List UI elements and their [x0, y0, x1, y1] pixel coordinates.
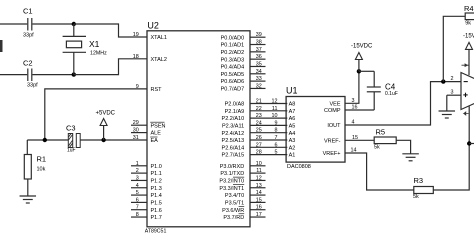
svg-text:1: 1 — [136, 161, 139, 167]
svg-text:P2.0/A8: P2.0/A8 — [225, 102, 245, 108]
svg-text:AT89C51: AT89C51 — [145, 229, 167, 235]
svg-text:R4: R4 — [464, 4, 474, 13]
svg-text:C2: C2 — [23, 59, 33, 68]
svg-text:35: 35 — [256, 61, 262, 67]
svg-text:P2.3/A11: P2.3/A11 — [222, 124, 244, 130]
svg-text:P3.6/WR: P3.6/WR — [222, 208, 244, 214]
svg-text:5k: 5k — [413, 194, 419, 200]
svg-text:R3: R3 — [414, 176, 424, 185]
svg-text:P3.7/RD: P3.7/RD — [223, 215, 244, 221]
svg-text:38: 38 — [256, 40, 262, 46]
svg-text:37: 37 — [256, 47, 262, 53]
svg-text:P0.0/AD0: P0.0/AD0 — [221, 35, 245, 41]
svg-text:RST: RST — [151, 87, 163, 93]
svg-text:21: 21 — [256, 99, 262, 105]
svg-text:7: 7 — [136, 205, 139, 211]
svg-text:P1.6: P1.6 — [151, 208, 162, 214]
svg-text:A6: A6 — [289, 116, 296, 122]
svg-text:VREF-: VREF- — [324, 138, 341, 144]
svg-text:XTAL1: XTAL1 — [151, 35, 167, 41]
svg-text:-15VDC: -15VDC — [463, 34, 474, 40]
svg-text:+5VDC: +5VDC — [96, 111, 116, 117]
svg-text:28: 28 — [256, 150, 262, 156]
svg-text:2: 2 — [136, 168, 139, 174]
svg-text:ALE: ALE — [151, 131, 162, 137]
svg-text:COMP: COMP — [324, 108, 341, 114]
svg-text:DAC0808: DAC0808 — [287, 164, 311, 170]
svg-text:14: 14 — [256, 190, 262, 196]
svg-text:9k: 9k — [465, 21, 471, 27]
svg-text:3: 3 — [451, 90, 454, 96]
svg-text:R5: R5 — [376, 128, 386, 137]
svg-text:X1: X1 — [89, 39, 100, 49]
svg-text:P2.7/A15: P2.7/A15 — [222, 153, 245, 159]
svg-text:5: 5 — [275, 150, 278, 156]
svg-text:23: 23 — [256, 113, 262, 119]
svg-text:P1.7: P1.7 — [151, 215, 162, 221]
svg-text:A1: A1 — [289, 153, 296, 159]
svg-text:8: 8 — [275, 128, 278, 134]
svg-text:8: 8 — [136, 212, 139, 218]
svg-text:P2.2/A10: P2.2/A10 — [222, 116, 245, 122]
svg-text:13: 13 — [256, 183, 262, 189]
svg-text:12MHz: 12MHz — [90, 50, 107, 56]
svg-text:P3.4/T0: P3.4/T0 — [225, 193, 244, 199]
svg-text:19: 19 — [133, 32, 139, 38]
svg-text:A2: A2 — [289, 145, 296, 151]
svg-text:36: 36 — [256, 54, 262, 60]
svg-text:29: 29 — [133, 120, 139, 126]
svg-text:3: 3 — [136, 175, 139, 181]
svg-text:31: 31 — [133, 135, 139, 141]
svg-text:1uF: 1uF — [67, 148, 76, 154]
svg-text:P0.3/AD3: P0.3/AD3 — [221, 57, 245, 63]
svg-text:VREF+: VREF+ — [323, 151, 341, 157]
svg-text:C3: C3 — [66, 124, 76, 133]
svg-text:39: 39 — [256, 32, 262, 38]
svg-text:P0.4/AD4: P0.4/AD4 — [221, 65, 245, 71]
svg-text:EA: EA — [151, 138, 159, 144]
svg-text:5: 5 — [136, 190, 139, 196]
svg-text:26: 26 — [256, 135, 262, 141]
svg-text:P1.3: P1.3 — [151, 186, 162, 192]
svg-text:12: 12 — [256, 175, 262, 181]
svg-text:IOUT: IOUT — [327, 123, 341, 129]
svg-text:6: 6 — [136, 197, 139, 203]
svg-text:P1.5: P1.5 — [151, 201, 162, 207]
svg-text:A4: A4 — [289, 131, 296, 137]
svg-text:XTAL2: XTAL2 — [151, 57, 167, 63]
svg-text:18: 18 — [133, 54, 139, 60]
svg-text:VEE: VEE — [329, 102, 340, 108]
svg-text:A3: A3 — [289, 138, 296, 144]
svg-text:R1: R1 — [37, 155, 47, 164]
svg-text:7: 7 — [275, 135, 278, 141]
svg-text:0.1uF: 0.1uF — [385, 91, 398, 97]
svg-text:P3.3/INT1: P3.3/INT1 — [219, 186, 244, 192]
svg-text:11: 11 — [256, 168, 262, 174]
svg-text:-15VDC: -15VDC — [351, 44, 373, 50]
svg-text:U2: U2 — [147, 21, 159, 31]
svg-text:P1.1: P1.1 — [151, 171, 162, 177]
svg-text:33pf: 33pf — [27, 83, 38, 89]
svg-text:U1: U1 — [286, 86, 298, 96]
svg-text:4: 4 — [136, 183, 139, 189]
svg-text:P3.2/INT0: P3.2/INT0 — [219, 179, 244, 185]
svg-text:P0.1/AD1: P0.1/AD1 — [221, 43, 245, 49]
svg-text:9: 9 — [275, 120, 278, 126]
svg-text:32: 32 — [256, 83, 262, 89]
svg-text:33: 33 — [256, 76, 262, 82]
svg-text:P2.6/A14: P2.6/A14 — [222, 145, 245, 151]
svg-text:16: 16 — [256, 205, 262, 211]
svg-text:12: 12 — [272, 99, 278, 105]
svg-text:10: 10 — [272, 113, 278, 119]
svg-text:P1.0: P1.0 — [151, 164, 162, 170]
svg-text:33pf: 33pf — [23, 33, 34, 39]
svg-text:9: 9 — [136, 84, 139, 90]
svg-text:P3.5/T1: P3.5/T1 — [225, 201, 244, 207]
svg-text:A8: A8 — [289, 102, 296, 108]
svg-text:22: 22 — [256, 106, 262, 112]
svg-text:10: 10 — [256, 161, 262, 167]
svg-text:P2.1/A9: P2.1/A9 — [225, 109, 245, 115]
svg-text:30: 30 — [133, 128, 139, 134]
svg-text:34: 34 — [256, 69, 262, 75]
svg-text:P3.0/RXD: P3.0/RXD — [220, 164, 244, 170]
svg-text:11: 11 — [272, 106, 278, 112]
svg-text:P0.7/AD7: P0.7/AD7 — [221, 87, 245, 93]
svg-text:P0.6/AD6: P0.6/AD6 — [221, 79, 245, 85]
svg-text:25: 25 — [256, 128, 262, 134]
svg-text:10k: 10k — [37, 167, 46, 173]
svg-text:5k: 5k — [374, 145, 380, 151]
svg-text:P2.4/A12: P2.4/A12 — [222, 131, 245, 137]
svg-text:27: 27 — [256, 142, 262, 148]
svg-text:C1: C1 — [23, 7, 33, 16]
svg-text:P3.1/TXD: P3.1/TXD — [220, 171, 244, 177]
svg-text:17: 17 — [256, 212, 262, 218]
svg-text:6: 6 — [275, 142, 278, 148]
svg-text:P1.2: P1.2 — [151, 179, 162, 185]
svg-text:P1.4: P1.4 — [151, 193, 162, 199]
svg-text:P0.5/AD5: P0.5/AD5 — [221, 72, 245, 78]
svg-text:15: 15 — [256, 197, 262, 203]
svg-text:24: 24 — [256, 120, 262, 126]
svg-text:A5: A5 — [289, 124, 296, 130]
svg-text:A7: A7 — [289, 109, 296, 115]
svg-text:P2.5/A13: P2.5/A13 — [222, 138, 245, 144]
svg-text:P0.2/AD2: P0.2/AD2 — [221, 50, 245, 56]
svg-text:PSEN: PSEN — [151, 123, 166, 129]
svg-text:2: 2 — [451, 76, 454, 82]
